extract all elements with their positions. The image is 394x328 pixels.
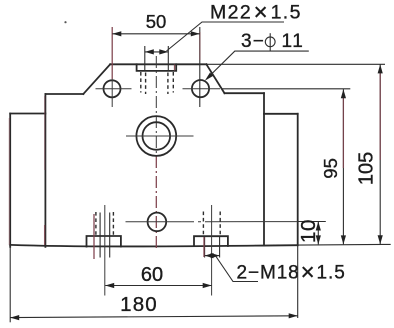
body outline: left edge: [44, 94, 46, 247]
bottom-right M18 drill lines: [204, 237, 206, 258]
red scan fringe on body left edge: [44, 96, 46, 170]
svg-text:105: 105: [355, 152, 377, 185]
dimension 95: arrows: [341, 89, 346, 98]
105-dim top extension line: [206, 63, 385, 65]
right flange top: [264, 113, 298, 115]
svg-text:95: 95: [320, 158, 341, 179]
dimension 95: line: [342, 89, 344, 244]
top-right hole phi11: [192, 80, 209, 97]
top boss recess: [137, 64, 177, 71]
svg-text:180: 180: [120, 293, 158, 316]
bottom-left M18 drill lines: [99, 213, 101, 258]
bottom-left hole centerline: [104, 205, 106, 296]
right flange edge: [297, 114, 299, 245]
dimension 180: line: [10, 316, 298, 318]
bottom-left boss: [87, 236, 121, 247]
body outline: left shoulder: [45, 93, 83, 95]
svg-text:11: 11: [282, 31, 305, 52]
M22 port drill lines: [144, 46, 146, 71]
left flange edge: [9, 114, 11, 247]
small hole below center: [148, 213, 167, 232]
dimension 105: line: [379, 64, 381, 244]
dimension 60: line: [105, 285, 212, 287]
M18 width arrows: [205, 255, 220, 257]
dimension 105: arrows: [378, 64, 383, 73]
phi symbol: [265, 37, 275, 47]
M22x1.5 leader: [167, 22, 285, 51]
bottom-left red scan line: [93, 214, 95, 259]
bottom-right M18 hidden thread lines: [202, 212, 204, 237]
10-dim top tick line: [298, 221, 326, 223]
center bore inner circle: [143, 122, 171, 150]
ink speck: [64, 21, 66, 23]
bottom edge extension line: [298, 243, 391, 246]
95-dim top extension line: [222, 88, 350, 90]
svg-text:3−: 3−: [241, 31, 265, 52]
M22 hidden thread lines: [140, 72, 142, 93]
dimension 60: arrows: [105, 283, 114, 288]
dimension 180: arrows: [10, 315, 19, 320]
top-right hole horizontal centerline: [183, 88, 221, 90]
3-phi11 leader arrow: [205, 73, 213, 81]
dimension 50: line: [112, 33, 200, 35]
svg-text:10: 10: [297, 219, 320, 243]
body outline: left chamfer: [83, 64, 110, 94]
top-left hole phi11: [104, 80, 121, 97]
3-phi11 leader: [208, 51, 309, 78]
180-dim left extension: [9, 246, 11, 322]
body outline: bottom edge: [10, 245, 298, 247]
bottom-right boss: [194, 236, 228, 246]
red scan mark on boss recess right edge: [174, 65, 176, 71]
svg-text:2−M18×1.5: 2−M18×1.5: [237, 259, 346, 286]
left flange top: [10, 113, 45, 115]
M22 width arrows: [145, 51, 169, 53]
body outline: top edge: [110, 63, 206, 65]
svg-text:60: 60: [141, 264, 163, 286]
dimension 10: line: [317, 222, 319, 245]
bottom-left M18 hidden thread lines: [95, 212, 97, 236]
svg-text:50: 50: [146, 11, 167, 32]
top-right hole vertical centerline / 50-dim extension: [199, 27, 201, 107]
top-left hole horizontal centerline: [96, 88, 132, 90]
svg-text:M22×1.5: M22×1.5: [210, 0, 302, 26]
red scan fringe on left flange edge: [8, 118, 10, 245]
bottom-right red scan line: [203, 237, 205, 257]
vertical centerline of part: [155, 56, 157, 156]
2-M18x1.5 leader: [216, 257, 258, 282]
body outline: right edge: [263, 93, 265, 245]
center bore horizontal centerline: [126, 135, 194, 137]
dimension 50: arrows: [112, 31, 121, 36]
bottom-right hole centerline: [211, 205, 213, 296]
dimension 10: arrows: [316, 222, 321, 231]
center bore outer circle: [136, 116, 176, 156]
180-dim right extension: [297, 245, 299, 318]
body outline: right chamfer: [206, 64, 224, 93]
body outline: right shoulder: [225, 92, 265, 94]
small hole horizontal centerline: [126, 221, 298, 223]
top-left hole vertical centerline / 50-dim extension: [111, 27, 113, 79]
